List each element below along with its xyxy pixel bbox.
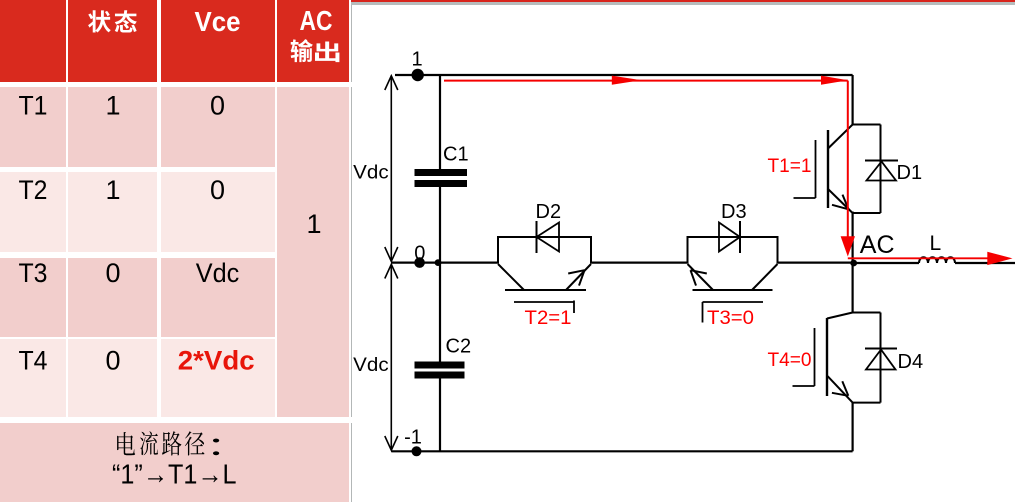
svg-text:AC: AC <box>860 231 895 259</box>
svg-text:T1=1: T1=1 <box>768 155 812 177</box>
wire: C2 to node -1 <box>439 379 441 452</box>
svg-text:Vdc: Vdc <box>353 355 389 376</box>
diode D2 <box>536 221 538 253</box>
red current path: AC output to the right <box>848 257 988 259</box>
diode D3 <box>739 221 741 253</box>
svg-text:1: 1 <box>306 209 321 239</box>
Vdc measuring arrow (upper) <box>390 76 392 262</box>
svg-text:D1: D1 <box>897 162 923 184</box>
svg-text:T3: T3 <box>19 258 48 288</box>
svg-text:T1: T1 <box>19 90 48 120</box>
wire: inductor to edge <box>955 262 1015 264</box>
svg-text:“1”→T1→L: “1”→T1→L <box>112 459 237 490</box>
svg-text:1: 1 <box>411 49 422 71</box>
svg-text:Vdc: Vdc <box>196 258 240 288</box>
svg-text:-1: -1 <box>404 427 422 449</box>
wire: T1 emitter to AC node <box>851 212 853 263</box>
red current path: top horizontal <box>444 80 848 82</box>
svg-text:C1: C1 <box>443 144 469 166</box>
svg-text:0: 0 <box>414 242 425 264</box>
svg-text:Vdc: Vdc <box>353 163 389 184</box>
T3 gate lead <box>703 301 764 303</box>
svg-text:C2: C2 <box>446 336 472 358</box>
wire: T4 emitter to bottom rail <box>851 403 853 452</box>
diode D4 branch <box>852 312 881 314</box>
diode D1 branch <box>852 124 881 126</box>
transistor T2 body <box>498 237 591 264</box>
wire: DC bus bottom (node -1 rail) <box>391 450 852 452</box>
wire: node 0 to T2 <box>391 262 498 264</box>
T2 gate lead <box>514 301 574 303</box>
svg-text:T2: T2 <box>19 175 48 205</box>
capacitor C1 <box>415 169 468 176</box>
transistor T4 (IGBT) <box>826 318 828 396</box>
svg-text:T4=0: T4=0 <box>768 349 812 371</box>
Vdc measuring arrow (lower) <box>390 264 392 451</box>
wire: AC node down to T4 <box>851 263 853 313</box>
caption 电流路径： <box>117 432 135 455</box>
wire: node1 rail down to T1 <box>851 75 853 125</box>
wire: T2 to T3 <box>591 262 688 264</box>
svg-text:T3=0: T3=0 <box>707 307 754 329</box>
T1 emitter arrow <box>832 205 849 210</box>
svg-text:T4: T4 <box>19 346 48 376</box>
svg-text:0: 0 <box>210 90 225 120</box>
svg-text:0: 0 <box>105 346 120 376</box>
T3 emitter arrow <box>691 270 707 273</box>
header text 输出 <box>291 39 313 62</box>
svg-text:1: 1 <box>105 90 120 120</box>
svg-text:L: L <box>930 232 942 255</box>
node 0 <box>414 257 425 268</box>
wire: DC bus top (node 1 rail) <box>395 74 853 76</box>
red current path: down through T1 <box>847 81 849 238</box>
capacitor C2 <box>415 362 465 369</box>
junction: cap branch on 0-wire <box>435 259 442 266</box>
svg-text:0: 0 <box>105 258 120 288</box>
node -1 <box>412 446 422 456</box>
svg-text:0: 0 <box>210 175 225 205</box>
T2 emitter arrow <box>568 270 584 273</box>
header text 状态 <box>88 10 111 32</box>
wire: capacitor branch (node1 to C1) <box>439 75 441 169</box>
wire: C1 to node 0 to C2 <box>439 187 441 362</box>
svg-text:T2=1: T2=1 <box>525 307 572 329</box>
wire: AC output with inductor <box>853 262 919 264</box>
svg-text:D4: D4 <box>898 351 924 373</box>
svg-text:AC: AC <box>300 5 333 36</box>
wire: T3 to AC node <box>778 262 853 264</box>
AC node junction <box>850 260 857 267</box>
svg-text:2*Vdc: 2*Vdc <box>178 346 255 376</box>
transistor T3 body <box>688 237 778 264</box>
T4 emitter arrow <box>832 393 848 396</box>
svg-text:1: 1 <box>105 175 120 205</box>
svg-text:Vce: Vce <box>195 6 241 37</box>
svg-text:D2: D2 <box>536 201 562 223</box>
svg-text:D3: D3 <box>721 201 747 223</box>
node 1 <box>412 69 424 81</box>
inductor L <box>919 257 955 263</box>
transistor T1 (IGBT) <box>827 130 829 208</box>
